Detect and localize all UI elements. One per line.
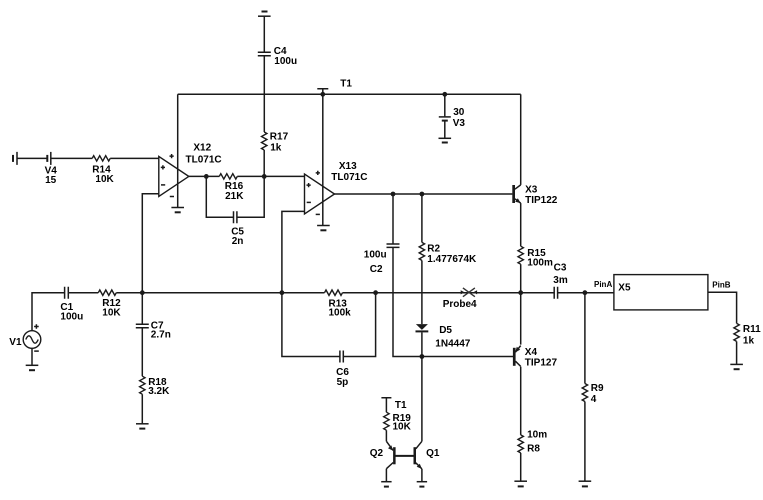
- svg-text:10K: 10K: [95, 174, 114, 185]
- svg-text:X12: X12: [193, 143, 211, 154]
- node F (D5/X4 base/Q1): [420, 354, 425, 359]
- ground (below V1): [26, 365, 39, 370]
- resistor R11: [734, 323, 739, 341]
- svg-text:TIP127: TIP127: [525, 358, 558, 369]
- svg-text:15: 15: [45, 175, 57, 186]
- ground (below X12): [171, 208, 184, 213]
- svg-text:100u: 100u: [60, 311, 83, 322]
- ground (below R9): [579, 481, 592, 486]
- node A (feedback/C7): [140, 290, 145, 295]
- terminal T1 (at R19): [381, 398, 391, 412]
- capacitor C4: [258, 52, 271, 55]
- wire Q1/Q2 base link: [395, 455, 413, 457]
- node D (output junction): [518, 290, 523, 295]
- svg-text:1k: 1k: [743, 335, 755, 346]
- resistor R12: [98, 290, 116, 295]
- capacitor C2: [387, 244, 400, 247]
- wire Q2 collector to ground: [385, 469, 387, 482]
- svg-text:100k: 100k: [329, 308, 352, 319]
- ground (below Q1): [417, 482, 427, 487]
- wire X13 V+ down from rail: [322, 94, 324, 225]
- wire C7 to R18: [141, 328, 143, 376]
- battery V4: [13, 152, 51, 165]
- wire R2 line upper: [421, 194, 423, 242]
- svg-text:10m: 10m: [527, 429, 547, 440]
- ground (below X13): [317, 226, 330, 231]
- battery V3: [439, 117, 451, 121]
- wire D5 to node F: [421, 332, 423, 356]
- svg-text:5p: 5p: [337, 377, 349, 388]
- resistor R15: [518, 246, 523, 264]
- resistor R19: [384, 412, 389, 430]
- capacitor C5: [234, 211, 237, 223]
- wire X12 V+ down to ground: [177, 94, 179, 207]
- resistor R8: [518, 435, 523, 453]
- svg-text:R11: R11: [743, 324, 761, 335]
- node E (R9 junction): [583, 290, 588, 295]
- svg-text:D5: D5: [439, 325, 452, 336]
- wire C5 loop left: [206, 176, 233, 217]
- ground (below V3): [439, 138, 452, 142]
- ground (inverted, above C4): [258, 12, 271, 17]
- wire R9 to ground: [584, 402, 586, 481]
- wire C5 loop right: [237, 176, 264, 217]
- wire top rail: [178, 93, 521, 95]
- op-amp X13: [305, 171, 335, 215]
- svg-text:T1: T1: [340, 79, 352, 90]
- svg-text:V3: V3: [453, 118, 466, 129]
- wire X13 output rail: [335, 193, 513, 195]
- wire X4 collector to R8: [520, 367, 522, 435]
- wire R11 to ground: [736, 341, 738, 364]
- svg-text:100u: 100u: [274, 56, 297, 67]
- svg-text:PinA: PinA: [594, 280, 612, 289]
- node C (C6 right): [373, 290, 378, 295]
- transistor Q2: [386, 441, 395, 468]
- svg-text:10K: 10K: [102, 307, 121, 318]
- svg-text:Probe4: Probe4: [443, 299, 477, 310]
- svg-text:30: 30: [453, 107, 465, 118]
- wire R2 to D5 (crosses mid rail): [421, 260, 423, 324]
- ground (below Q2): [381, 482, 391, 487]
- resistor R16: [219, 174, 237, 179]
- node X12 output: [204, 174, 209, 179]
- svg-text:PinB: PinB: [712, 280, 730, 289]
- svg-text:X5: X5: [618, 283, 631, 294]
- wire node E to R9: [584, 293, 586, 384]
- wire C3 to X5: [558, 292, 614, 294]
- svg-text:T1: T1: [395, 400, 407, 411]
- wire C6 loop: [282, 293, 376, 357]
- wire C2 line lower (crosses mid rail): [393, 248, 422, 357]
- resistor R2: [419, 242, 424, 260]
- resistor R18: [140, 376, 145, 394]
- resistor R13: [325, 290, 343, 295]
- wire Q1 emitter to ground: [421, 469, 423, 481]
- svg-text:X3: X3: [525, 185, 538, 196]
- svg-text:Q1: Q1: [426, 448, 440, 459]
- svg-text:2.7n: 2.7n: [151, 330, 171, 341]
- wire R18 to ground: [141, 394, 143, 423]
- svg-text:C3: C3: [554, 263, 567, 274]
- svg-text:R17: R17: [270, 132, 289, 143]
- svg-text:2n: 2n: [232, 236, 244, 247]
- svg-text:TL071C: TL071C: [186, 154, 222, 165]
- svg-text:3.2K: 3.2K: [148, 386, 170, 397]
- wire node D to X4 emitter: [520, 293, 522, 345]
- svg-text:R8: R8: [527, 443, 540, 454]
- wire R8 to ground: [520, 453, 522, 481]
- svg-text:V1: V1: [9, 337, 22, 348]
- wire X13 inverting input: [282, 211, 305, 292]
- node B (X13 inv/C6): [280, 290, 285, 295]
- wire R19 to Q2 emitter: [385, 430, 387, 441]
- node R16/R17/C5: [262, 174, 267, 179]
- wire V1 to mid rail: [32, 293, 65, 331]
- svg-text:C2: C2: [370, 264, 383, 275]
- wire R14 to X12 plus input: [110, 157, 159, 159]
- transistor X4: [513, 346, 521, 367]
- svg-text:10K: 10K: [393, 421, 412, 432]
- source V1: [23, 324, 41, 351]
- capacitor C6: [340, 351, 343, 363]
- wire X5 PinB to R11: [708, 292, 737, 323]
- wire X3 collector to top rail: [520, 94, 522, 185]
- resistor R17: [262, 132, 267, 150]
- wire mid rail R13 to C3: [343, 292, 554, 294]
- svg-text:TL071C: TL071C: [331, 172, 367, 183]
- wire node A to C7: [141, 293, 143, 324]
- wire C4 to R17 (crosses top rail): [263, 56, 265, 132]
- wire V4 to R14: [51, 157, 92, 159]
- wire X12 inverting input: [142, 194, 159, 293]
- svg-text:100u: 100u: [364, 250, 387, 261]
- capacitor C7: [136, 324, 149, 327]
- wire X4 base: [422, 356, 513, 358]
- node R2 top: [420, 192, 425, 197]
- svg-text:1.477674K: 1.477674K: [427, 254, 477, 265]
- wire R17 to node: [263, 150, 265, 176]
- svg-text:21K: 21K: [225, 191, 244, 202]
- svg-text:Q2: Q2: [370, 448, 384, 459]
- svg-text:3m: 3m: [553, 275, 568, 286]
- wire R15 to node D: [520, 264, 522, 293]
- wire X3 emitter to R15: [520, 203, 522, 246]
- ground (below R18): [136, 424, 149, 429]
- op-amp X12: [159, 154, 189, 197]
- svg-text:4: 4: [591, 394, 597, 405]
- wire R16 to node: [237, 175, 304, 177]
- ground (below R11): [730, 364, 743, 369]
- svg-text:TIP122: TIP122: [525, 195, 558, 206]
- svg-text:X13: X13: [339, 161, 357, 172]
- wire rail to V3: [444, 94, 446, 116]
- wire mid rail R12 to R13: [116, 292, 324, 294]
- wire V3 to ground: [444, 121, 446, 138]
- node V3 junction: [442, 92, 447, 97]
- svg-text:100m: 100m: [527, 257, 553, 268]
- wire C1 to R12: [68, 292, 98, 294]
- resistor R9: [582, 384, 587, 402]
- subcircuit X5: [614, 275, 708, 310]
- transistor Q1: [414, 441, 422, 469]
- capacitor C3: [554, 287, 557, 299]
- svg-text:X4: X4: [525, 347, 538, 358]
- wire ground to C4: [263, 16, 265, 52]
- wire V1 to ground: [31, 348, 33, 365]
- transistor X3: [512, 185, 520, 203]
- diode D5: [416, 324, 429, 331]
- svg-text:1k: 1k: [270, 143, 282, 154]
- svg-text:R9: R9: [591, 383, 604, 394]
- wire C2 line upper: [392, 194, 394, 244]
- resistor R14: [92, 156, 110, 161]
- terminal T1: [317, 89, 328, 95]
- capacitor C1: [65, 287, 69, 299]
- wire Q1 collector to node F: [421, 357, 423, 442]
- node C2 top: [391, 192, 396, 197]
- wire X12 output: [189, 175, 220, 177]
- probe Probe4: [461, 288, 477, 297]
- svg-text:1N4447: 1N4447: [435, 339, 470, 350]
- node T1 junction: [320, 92, 325, 97]
- ground (below R8): [514, 481, 527, 486]
